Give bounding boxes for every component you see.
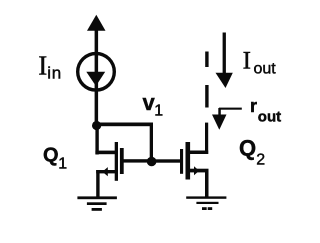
svg-text:out: out	[258, 108, 281, 125]
svg-text:I: I	[38, 50, 47, 80]
svg-text:out: out	[254, 61, 277, 78]
svg-text:2: 2	[256, 152, 265, 169]
svg-text:1: 1	[154, 103, 163, 120]
svg-text:I: I	[243, 48, 251, 75]
svg-text:r: r	[250, 96, 257, 116]
svg-text:in: in	[47, 64, 62, 83]
svg-text:1: 1	[58, 155, 67, 172]
svg-text:Q: Q	[239, 136, 256, 161]
svg-text:Q: Q	[43, 144, 59, 166]
